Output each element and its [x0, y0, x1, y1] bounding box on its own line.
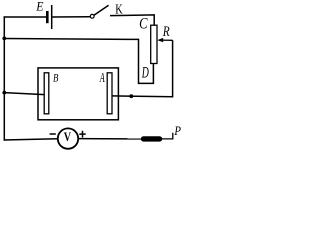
- svg-text:R: R: [162, 24, 170, 39]
- wire bottom rail to voltmeter: [4, 139, 58, 140]
- wire probe tip: [162, 133, 173, 139]
- label E: [35, 0, 44, 14]
- junction node on A wire: [129, 94, 133, 98]
- voltmeter V: [58, 128, 78, 148]
- resistor R body: [151, 25, 157, 63]
- switch K pivot: [90, 14, 94, 18]
- probe P handle: [141, 136, 163, 141]
- label A: [99, 71, 105, 85]
- switch K blade: [94, 5, 109, 15]
- label R: [162, 24, 170, 39]
- label K: [115, 1, 123, 17]
- wire to resistor bottom (terminal D): [4, 39, 153, 84]
- battery E positive plate: [51, 5, 53, 29]
- svg-text:A: A: [99, 71, 105, 85]
- svg-text:B: B: [53, 72, 59, 85]
- plus sign: [79, 131, 85, 138]
- wire left rail to plate B: [4, 93, 44, 95]
- wire battery left lead: [4, 16, 47, 18]
- label D: [141, 63, 149, 81]
- label B: [53, 72, 59, 85]
- label C: [139, 16, 148, 32]
- wiper arrow of R: [157, 38, 172, 42]
- wire voltmeter to probe: [78, 138, 142, 140]
- plate B: [44, 73, 49, 114]
- wire wiper to plate A: [112, 40, 173, 97]
- wire left rail: [3, 16, 5, 140]
- wire switch to resistor top (terminal C): [110, 15, 154, 26]
- battery E negative plate: [46, 11, 49, 23]
- svg-text:C: C: [139, 16, 148, 32]
- svg-text:D: D: [141, 63, 149, 81]
- plate A: [107, 73, 112, 114]
- svg-text:E: E: [35, 0, 44, 14]
- label P: [173, 123, 180, 138]
- junction node lower left: [2, 91, 6, 95]
- tank: [38, 68, 118, 120]
- junction node upper left: [2, 37, 6, 41]
- wire battery to switch: [52, 16, 90, 18]
- svg-text:P: P: [173, 123, 180, 138]
- svg-text:V: V: [64, 130, 72, 145]
- minus sign: [50, 133, 56, 135]
